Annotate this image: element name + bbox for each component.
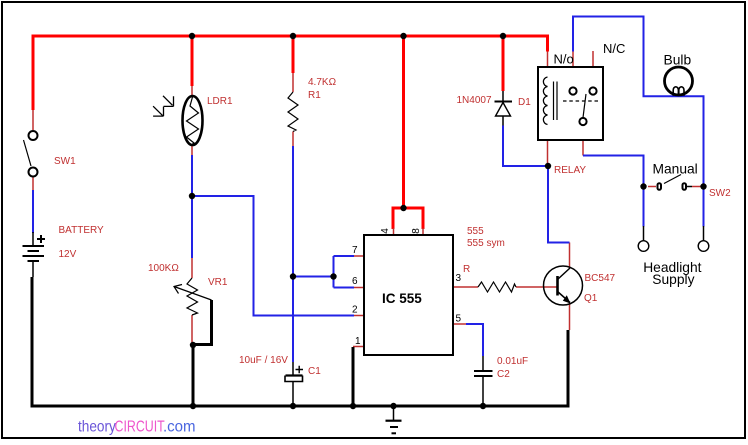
svg-text:R: R [463,264,470,275]
svg-text:C2: C2 [497,369,510,380]
svg-text:theory: theory [78,419,117,436]
svg-text:5: 5 [456,314,462,325]
svg-text:0.01uF: 0.01uF [497,356,528,367]
svg-text:7: 7 [352,245,358,256]
svg-text:D1: D1 [518,97,531,108]
svg-text:IC 555: IC 555 [382,291,422,306]
svg-text:.com: .com [163,418,196,435]
svg-text:R1: R1 [308,90,321,101]
svg-text:10uF / 16V: 10uF / 16V [239,355,288,366]
svg-text:6: 6 [352,276,358,287]
svg-text:Q1: Q1 [584,293,598,304]
svg-text:SW1: SW1 [54,156,76,167]
svg-text:1: 1 [355,336,361,347]
svg-text:CIRCUIT: CIRCUIT [115,417,166,435]
svg-text:Supply: Supply [652,272,694,287]
svg-text:N/o: N/o [554,52,574,67]
svg-text:C1: C1 [308,366,321,377]
svg-text:3: 3 [456,273,462,284]
svg-text:LDR1: LDR1 [207,96,233,107]
svg-text:SW2: SW2 [709,188,731,199]
svg-text:BC547: BC547 [585,273,616,284]
svg-text:4: 4 [380,228,391,234]
svg-text:VR1: VR1 [208,277,228,288]
svg-text:555: 555 [467,226,484,237]
svg-text:Bulb: Bulb [664,53,692,68]
svg-text:BATTERY: BATTERY [59,225,105,236]
svg-text:555 sym: 555 sym [467,238,505,249]
svg-text:4.7KΩ: 4.7KΩ [308,77,337,88]
svg-text:100KΩ: 100KΩ [148,263,179,274]
svg-text:8: 8 [411,228,422,234]
svg-text:RELAY: RELAY [554,165,586,176]
svg-text:2: 2 [352,305,358,316]
svg-text:12V: 12V [59,249,77,260]
svg-text:Manual: Manual [653,161,698,176]
svg-text:1N4007: 1N4007 [457,95,492,106]
svg-text:N/C: N/C [603,41,625,56]
